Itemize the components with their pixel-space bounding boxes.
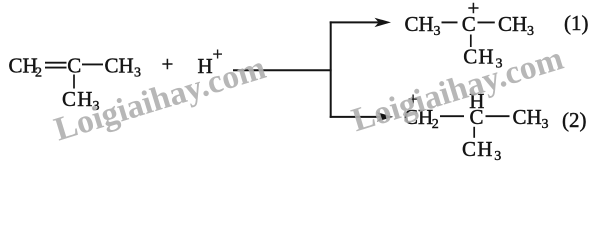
svg-text:3: 3 <box>542 117 549 132</box>
svg-text:CH: CH <box>105 54 134 78</box>
reaction main line <box>233 69 332 71</box>
svg-text:C: C <box>470 105 484 129</box>
svg-text:3: 3 <box>527 24 534 39</box>
svg-text:2: 2 <box>35 66 42 81</box>
svg-text:+: + <box>162 52 174 76</box>
product 2 bond right <box>486 115 510 117</box>
svg-text:2: 2 <box>432 117 439 132</box>
svg-text:CH: CH <box>9 54 38 78</box>
product 1 bond down <box>470 35 472 48</box>
bond C-CH3 right <box>82 63 103 65</box>
svg-text:CH: CH <box>405 12 434 36</box>
top arrow head <box>375 18 392 27</box>
svg-text:CH: CH <box>462 137 494 161</box>
svg-text:+: + <box>468 0 480 20</box>
top arrow shaft <box>330 21 379 23</box>
svg-text:(1): (1) <box>564 11 589 35</box>
product 1 bond left <box>442 21 458 23</box>
svg-text:CH: CH <box>513 105 542 129</box>
product 2 bond left <box>440 115 464 117</box>
bottom arrow shaft <box>330 116 381 118</box>
bottom arrow head <box>377 112 394 121</box>
product 2 bond down <box>473 127 475 138</box>
svg-text:3: 3 <box>134 66 141 81</box>
svg-text:C: C <box>67 54 81 78</box>
svg-text:CH: CH <box>498 12 527 36</box>
fork vertical line <box>330 21 332 117</box>
product 1 bond right <box>478 21 495 23</box>
bond C-CH3 down <box>73 75 75 89</box>
svg-text:3: 3 <box>434 24 441 39</box>
double bond C=C <box>45 63 67 68</box>
svg-text:3: 3 <box>494 149 501 161</box>
svg-text:(2): (2) <box>562 108 587 132</box>
